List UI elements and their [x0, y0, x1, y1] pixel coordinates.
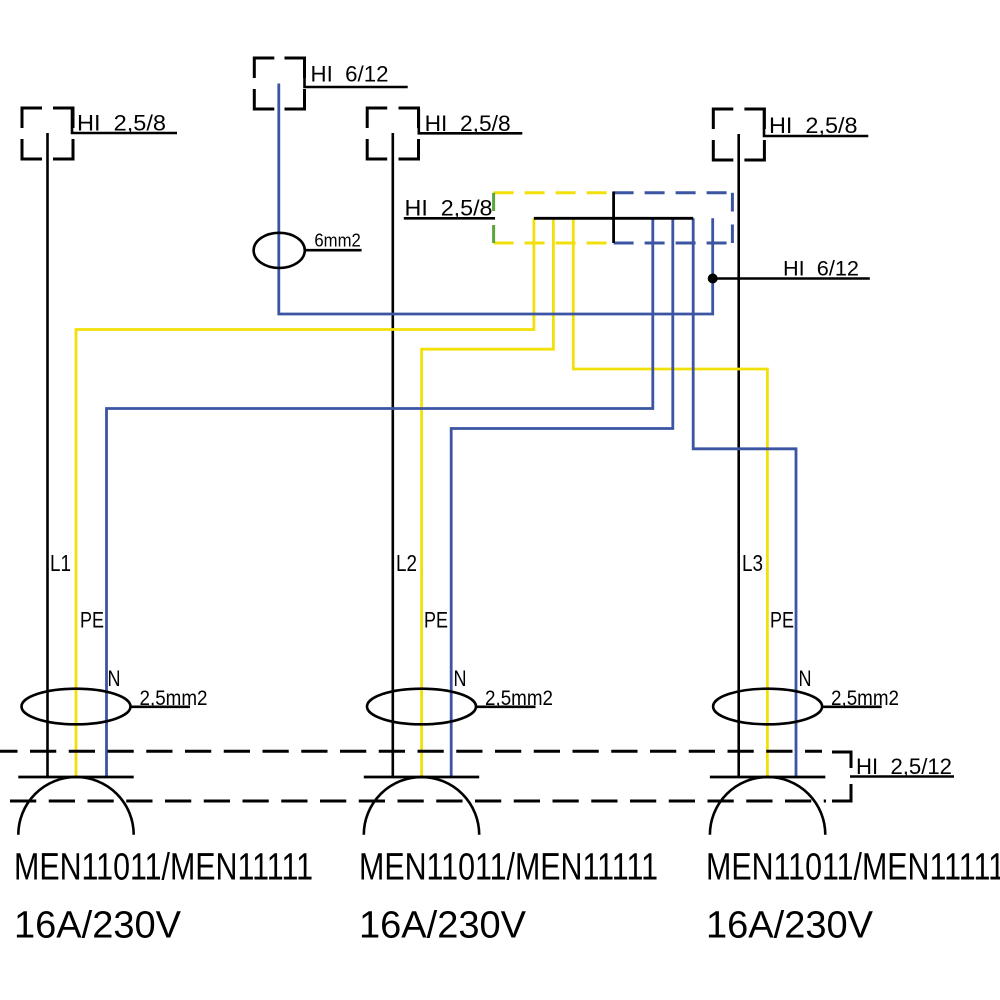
distribution box dashed outline: top yellow segment — [494, 191, 614, 194]
wire L1 phase (black) — [46, 133, 49, 777]
outlet X1 terminal bar — [18, 776, 133, 779]
svg-text:N: N — [454, 666, 467, 691]
wire L3 phase (black) — [737, 134, 740, 777]
svg-text:2,5mm2: 2,5mm2 — [485, 687, 553, 710]
junction box J4 (top-right) — [713, 109, 764, 160]
label underline 6mm2 — [305, 249, 362, 252]
svg-text:L2: L2 — [396, 550, 417, 576]
svg-text:HI 2,5/8: HI 2,5/8 — [769, 113, 858, 138]
distribution box left edge (green) — [492, 193, 495, 243]
distribution box dashed outline: bottom yellow segment — [494, 242, 614, 245]
junction box J2 (top-middle, HI 6/12 feed box) — [254, 58, 304, 109]
svg-text:16A/230V: 16A/230V — [14, 904, 181, 947]
svg-text:PE: PE — [80, 608, 104, 633]
leader line HI 6/12 (right) — [713, 277, 870, 280]
outlet X3 dome — [710, 777, 825, 835]
wire feed 6mm2 (blue) from J2 to distribution bar — [279, 84, 713, 315]
ceiling boundary corner (top-right) — [832, 752, 851, 768]
cable marker ellipse 6mm2 — [254, 233, 305, 268]
cable marker ellipse circuit 2 — [367, 689, 476, 725]
svg-text:2,5mm2: 2,5mm2 — [140, 687, 208, 710]
distribution box right edge (blue) — [731, 193, 734, 243]
ceiling boundary dashed line (upper) — [0, 750, 822, 753]
svg-text:16A/230V: 16A/230V — [706, 904, 873, 947]
svg-text:HI 6/12: HI 6/12 — [311, 62, 389, 87]
label underline HI 2,5/8 (distribution box) — [404, 217, 495, 220]
outlet X2 dome — [364, 777, 479, 835]
label underline HI 2,5/12 — [850, 775, 954, 778]
svg-text:L1: L1 — [50, 550, 71, 576]
label leader HI 2,5/8 (J1) — [72, 109, 177, 134]
ceiling boundary dashed line (lower) — [0, 800, 826, 803]
distribution box dashed outline: top blue segment — [614, 191, 733, 194]
distribution bar (black) — [534, 217, 693, 220]
wire N2 (blue) — [451, 218, 673, 777]
wire L2 phase (black) — [391, 133, 394, 777]
wire PE2 (yellow) — [422, 218, 554, 777]
junction box J3 (top-center) — [367, 108, 418, 159]
label underline 2,5mm2 (circuit 3) — [822, 705, 882, 708]
svg-text:HI 2,5/8: HI 2,5/8 — [77, 111, 166, 136]
svg-text:HI 6/12: HI 6/12 — [783, 258, 859, 281]
cable marker ellipse circuit 3 — [713, 689, 822, 725]
svg-text:L3: L3 — [742, 550, 763, 576]
svg-text:N: N — [799, 666, 812, 691]
wire N3 (blue) — [693, 218, 796, 777]
outlet X1 dome — [18, 777, 133, 835]
svg-text:PE: PE — [770, 608, 794, 633]
label underline 2,5mm2 (circuit 2) — [476, 705, 536, 708]
svg-text:MEN11011/MEN11111: MEN11011/MEN11111 — [14, 846, 313, 889]
svg-text:HI 2,5/12: HI 2,5/12 — [856, 754, 952, 779]
svg-text:N: N — [108, 666, 121, 691]
label leader HI 2,5/8 (J4) — [764, 110, 868, 137]
distribution box dashed outline: bottom blue segment — [614, 242, 733, 245]
junction dot on feed wire — [708, 274, 718, 284]
label leader HI 2,5/8 (J3) — [419, 109, 523, 134]
outlet X3 terminal bar — [710, 776, 825, 779]
svg-text:PE: PE — [424, 608, 448, 633]
cable marker ellipse circuit 1 — [22, 689, 131, 725]
svg-text:HI 2,5/8: HI 2,5/8 — [405, 196, 493, 221]
svg-text:16A/230V: 16A/230V — [359, 904, 526, 947]
svg-text:2,5mm2: 2,5mm2 — [831, 687, 899, 710]
label underline 2,5mm2 (circuit 1) — [131, 705, 191, 708]
wire PE1 (yellow) — [76, 218, 534, 777]
distribution divider (black) — [612, 192, 615, 244]
wire PE3 (yellow) — [573, 218, 767, 777]
ceiling boundary corner (bottom-right) — [832, 784, 851, 801]
outlet X2 terminal bar — [364, 776, 479, 779]
svg-text:HI 2,5/8: HI 2,5/8 — [425, 111, 511, 136]
wire N1 (blue) — [107, 218, 653, 777]
svg-text:MEN11011/MEN11111: MEN11011/MEN11111 — [706, 846, 1000, 889]
junction box J1 (top-left, dashed corner brackets) — [22, 108, 73, 159]
svg-text:MEN11011/MEN11111: MEN11011/MEN11111 — [359, 846, 658, 889]
label leader HI 6/12 (J2) — [305, 59, 408, 88]
svg-text:6mm2: 6mm2 — [314, 231, 360, 251]
